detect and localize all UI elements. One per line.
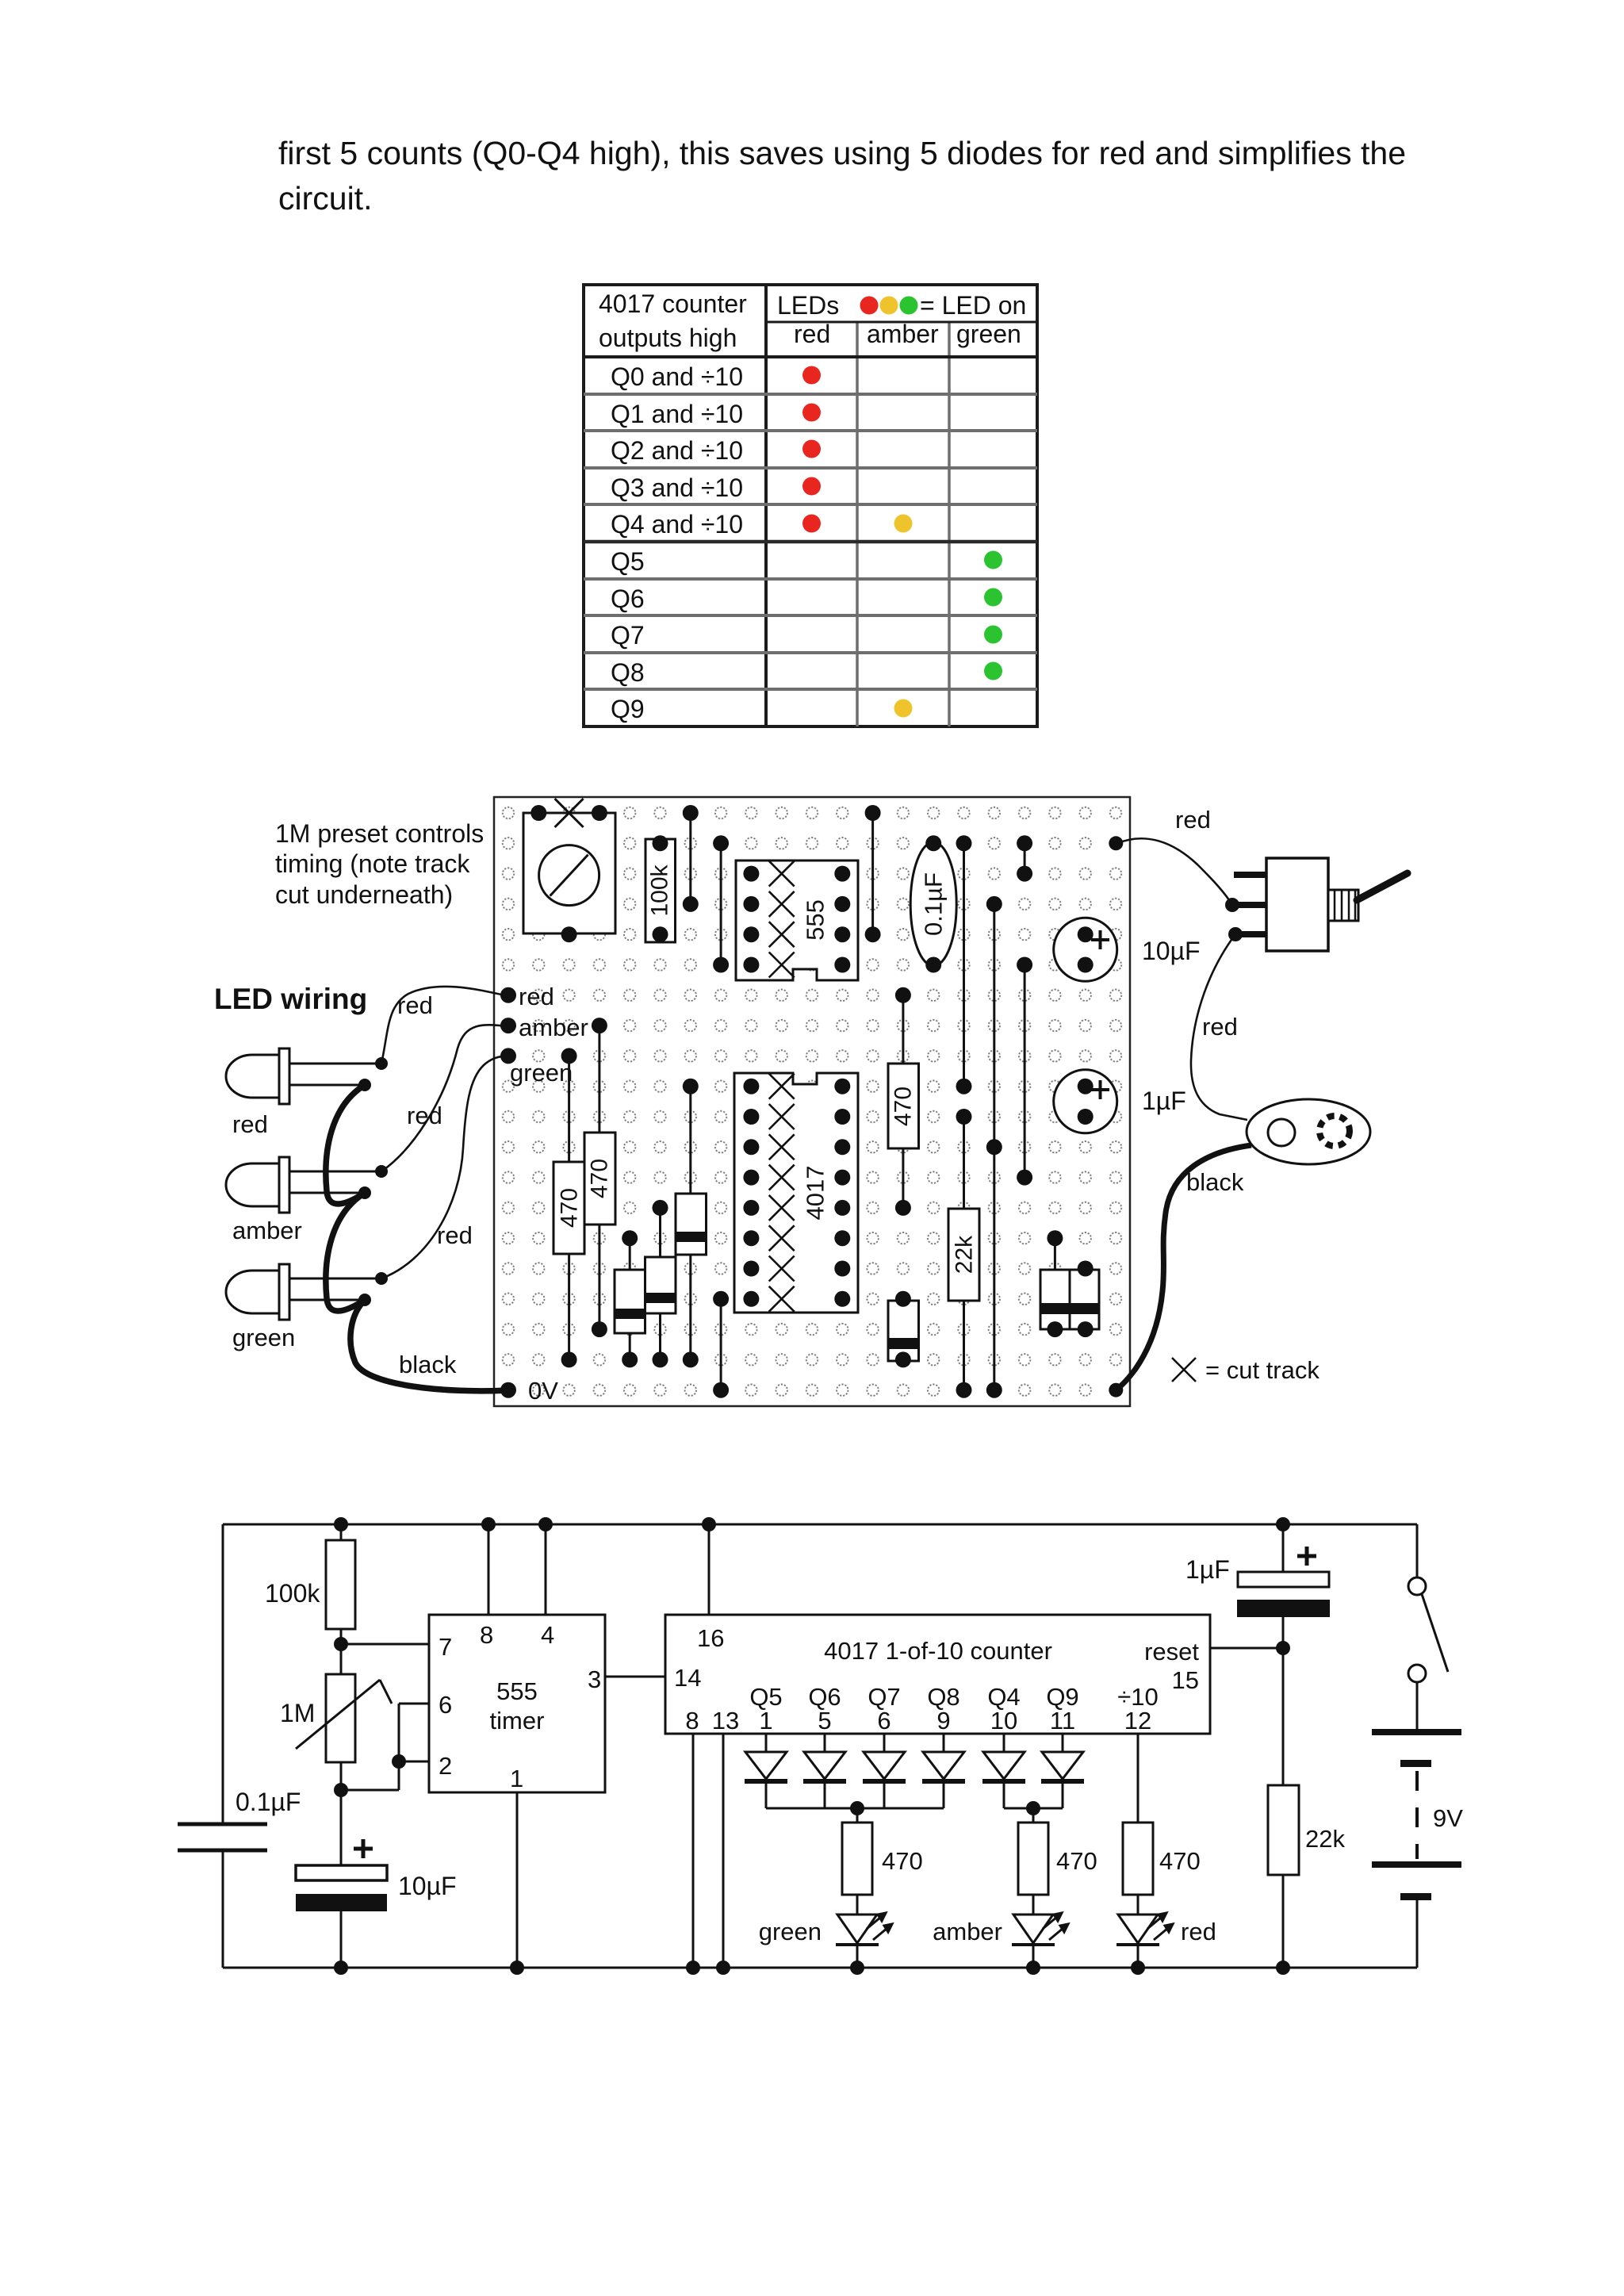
table legend LED dots — [860, 297, 918, 315]
svg-text:10µF: 10µF — [398, 1872, 457, 1900]
svg-text:Q6: Q6 — [611, 585, 645, 613]
diode (board, col6) — [676, 1079, 707, 1368]
svg-text:11: 11 — [1050, 1707, 1075, 1734]
svg-text:black: black — [399, 1351, 457, 1378]
svg-text:470: 470 — [1056, 1847, 1097, 1875]
svg-text:0.1µF: 0.1µF — [236, 1788, 301, 1816]
diode pair (board, cols18-19) — [1040, 1230, 1099, 1337]
diode D6 (Q9) — [1041, 1734, 1084, 1808]
svg-text:Q1 and ÷10: Q1 and ÷10 — [611, 400, 743, 428]
wire link col16 rows3-19 — [986, 896, 1002, 1398]
preset potentiometer 1M — [523, 805, 615, 942]
resistor 470 (board, col3) — [584, 1018, 615, 1337]
svg-text:2: 2 — [439, 1752, 452, 1780]
junction pin2/6 — [392, 1754, 406, 1769]
cathode link wire red-amber — [326, 1085, 365, 1204]
circuit schematic — [178, 1517, 1463, 1975]
IC 4017 (board) — [734, 1073, 858, 1313]
battery clip — [1247, 1099, 1370, 1164]
svg-text:red: red — [1181, 1918, 1216, 1945]
wire link col17 rows1-2 — [1017, 835, 1032, 881]
svg-text:15: 15 — [1172, 1666, 1199, 1694]
resistor 470 (board, col13) — [888, 987, 919, 1216]
board hole grid — [493, 798, 1130, 1405]
diode D4 (Q8) — [922, 1734, 965, 1808]
wire top supply rail — [223, 1524, 1417, 1526]
wire link col12 rows0-4 — [865, 805, 881, 942]
capacitor 0.1uF — [178, 1788, 301, 1850]
capacitor 1uF (board) — [1054, 1070, 1117, 1133]
svg-text:14: 14 — [674, 1664, 701, 1692]
svg-text:4: 4 — [541, 1621, 554, 1649]
LED red (schematic) — [1116, 1913, 1216, 1975]
node red (board entry) — [500, 983, 554, 1010]
resistor 470 (green) — [842, 1808, 923, 1915]
switch (schematic) — [1408, 1524, 1448, 1732]
LED wiring section — [214, 983, 508, 1391]
svg-text:9: 9 — [936, 1707, 950, 1734]
wire pin12 down — [1137, 1734, 1139, 1823]
resistor 470 (board, col2) — [553, 1048, 584, 1367]
paragraph text — [278, 135, 1406, 217]
svg-text:470: 470 — [1159, 1847, 1201, 1875]
svg-text:first 5 counts (Q0-Q4 high), t: first 5 counts (Q0-Q4 high), this saves … — [278, 135, 1406, 171]
stripboard layout diagram — [275, 797, 1201, 1406]
LED amber (schematic) — [933, 1913, 1068, 1975]
wire amber LED anode to board — [381, 1025, 508, 1171]
svg-text:470: 470 — [557, 1188, 583, 1228]
svg-text:0V: 0V — [528, 1377, 558, 1405]
right-side off-board wiring — [1109, 806, 1408, 1397]
svg-text:6: 6 — [439, 1691, 452, 1719]
svg-text:red: red — [1175, 806, 1211, 834]
svg-text:555: 555 — [802, 899, 829, 941]
wire switch to battery clip — [1191, 934, 1247, 1120]
wire pins 2 and 6 — [341, 1704, 429, 1790]
svg-text:0.1µF: 0.1µF — [920, 872, 948, 936]
node (20,1) red wire exit — [1109, 836, 1123, 850]
svg-text:Q3 and ÷10: Q3 and ÷10 — [611, 473, 743, 502]
svg-text:Q7: Q7 — [611, 621, 645, 650]
wire link col7 rows1-5 — [713, 835, 729, 972]
svg-text:8: 8 — [480, 1621, 493, 1649]
wire pin8 4017 — [692, 1734, 695, 1968]
diode D3 (Q7) — [863, 1734, 906, 1808]
diode (board, col5) — [645, 1200, 676, 1368]
resistor 22k (board) — [948, 1109, 979, 1398]
IC 4017 counter — [665, 1615, 1210, 1734]
svg-text:Q4 and ÷10: Q4 and ÷10 — [611, 510, 743, 539]
wire pin4 — [545, 1524, 547, 1615]
svg-text:1M preset controls: 1M preset controls — [275, 819, 484, 848]
wire black battery clip to board — [1116, 1145, 1251, 1390]
svg-text:3: 3 — [588, 1665, 601, 1693]
diode D2 (Q6) — [803, 1734, 846, 1808]
diode D5 (Q4) — [982, 1734, 1025, 1808]
svg-text:12: 12 — [1124, 1707, 1151, 1734]
svg-text:1: 1 — [759, 1707, 772, 1734]
board outline — [494, 797, 1130, 1406]
svg-text:circuit.: circuit. — [278, 180, 372, 217]
wire link col15 rows1-9 — [956, 835, 972, 1094]
toggle switch — [1225, 858, 1408, 951]
svg-text:green: green — [759, 1918, 822, 1945]
wire link col7 rows16-19 — [713, 1291, 729, 1398]
cathode link wire amber-green — [326, 1193, 365, 1311]
svg-text:amber: amber — [867, 320, 939, 348]
4017 output labels — [685, 1683, 1158, 1734]
svg-text:LEDs: LEDs — [777, 291, 839, 320]
svg-text:4017: 4017 — [802, 1166, 829, 1221]
resistor 470 (amber) — [1018, 1808, 1097, 1915]
svg-text:Q9: Q9 — [611, 695, 645, 723]
svg-text:9V: 9V — [1433, 1804, 1463, 1832]
wire pin1 — [516, 1792, 519, 1968]
note text: 1M preset controls timing — [275, 819, 484, 909]
svg-text:4017 counter: 4017 counter — [599, 289, 747, 318]
svg-text:6: 6 — [877, 1707, 891, 1734]
wire green LED anode to board — [381, 1056, 508, 1278]
preset 1M — [280, 1674, 392, 1865]
capacitor 10uF (board) — [1054, 918, 1117, 981]
svg-text:= LED on: = LED on — [920, 291, 1026, 320]
svg-text:amber: amber — [232, 1217, 302, 1244]
svg-text:Q0 and ÷10: Q0 and ÷10 — [611, 362, 743, 391]
wire left rail lower — [222, 1850, 224, 1968]
wire reset pin15 — [1210, 1647, 1283, 1650]
resistor 100k — [265, 1517, 355, 1674]
svg-text:timer: timer — [490, 1707, 545, 1734]
svg-text:470: 470 — [882, 1847, 923, 1875]
node green (board entry) — [500, 1048, 573, 1087]
wire board to switch — [1116, 838, 1232, 905]
table LED state dots — [802, 366, 1002, 718]
wire pin7 — [341, 1643, 429, 1646]
svg-text:Q2 and ÷10: Q2 and ÷10 — [611, 436, 743, 465]
table grid lines — [584, 285, 1037, 726]
svg-text:black: black — [1186, 1168, 1244, 1196]
diode D1 (Q5) — [745, 1734, 787, 1808]
table header text — [599, 289, 1026, 352]
svg-text:reset: reset — [1144, 1638, 1199, 1665]
svg-text:red: red — [794, 320, 830, 348]
wire link col6 rows0-3 — [683, 805, 699, 912]
wire red LED anode to board — [381, 987, 508, 1064]
cut-track X on preset top edge — [555, 799, 584, 827]
node amber (board entry) — [500, 1014, 588, 1041]
LED amber — [226, 1157, 388, 1244]
wire pin8 — [488, 1524, 490, 1615]
svg-text:555: 555 — [496, 1677, 538, 1705]
svg-text:10: 10 — [990, 1707, 1017, 1734]
svg-text:= cut track: = cut track — [1205, 1356, 1319, 1384]
svg-text:timing (note track: timing (note track — [275, 849, 470, 878]
IC 555 (board) — [736, 861, 858, 980]
svg-text:Q8: Q8 — [611, 658, 645, 687]
svg-text:22k: 22k — [952, 1235, 978, 1274]
resistor 22k — [1268, 1785, 1345, 1975]
svg-text:10µF: 10µF — [1142, 937, 1201, 965]
svg-text:green: green — [232, 1324, 295, 1351]
diode (board, col4) — [615, 1230, 645, 1367]
svg-text:1µF: 1µF — [1142, 1087, 1186, 1115]
svg-text:7: 7 — [439, 1633, 452, 1661]
LED green (schematic) — [759, 1913, 892, 1975]
svg-text:red: red — [407, 1102, 442, 1129]
battery 9V — [1372, 1732, 1463, 1968]
IC 555 timer — [429, 1615, 605, 1792]
svg-text:red: red — [1202, 1013, 1238, 1041]
wire pin16 — [708, 1524, 710, 1615]
wire bottom 0V rail — [223, 1967, 1417, 1969]
capacitor 0.1uF (board) — [910, 835, 956, 972]
svg-text:green: green — [956, 320, 1021, 348]
capacitor 10uF — [296, 1839, 457, 1975]
wire amber diode bus — [1004, 1807, 1063, 1810]
svg-text:amber: amber — [519, 1014, 588, 1041]
node 0V (board entry) — [500, 1377, 558, 1405]
svg-text:16: 16 — [697, 1624, 724, 1652]
table row labels — [611, 362, 743, 723]
resistor 470 (red) — [1123, 1808, 1201, 1915]
wire green diode bus — [766, 1807, 944, 1810]
svg-text:red: red — [519, 983, 554, 1010]
svg-text:100k: 100k — [265, 1579, 320, 1608]
wire pin13 4017 — [722, 1734, 725, 1968]
wire black to 0V — [350, 1300, 508, 1391]
wire pin3 to pin14 — [605, 1676, 665, 1678]
svg-text:cut underneath): cut underneath) — [275, 880, 453, 909]
LED green — [226, 1264, 388, 1351]
svg-text:LED wiring: LED wiring — [214, 983, 367, 1015]
svg-text:470: 470 — [891, 1087, 917, 1126]
svg-text:4017 1-of-10 counter: 4017 1-of-10 counter — [824, 1637, 1052, 1665]
wire link col17 rows5-12 — [1017, 957, 1032, 1186]
diode (board, col13) — [888, 1291, 919, 1368]
svg-text:1: 1 — [510, 1765, 523, 1792]
legend cut track — [1172, 1356, 1319, 1384]
svg-text:red: red — [397, 991, 433, 1019]
svg-text:100k: 100k — [647, 864, 673, 916]
capacitor 1uF — [1185, 1517, 1330, 1785]
svg-text:outputs high: outputs high — [599, 324, 737, 352]
svg-text:5: 5 — [818, 1707, 831, 1734]
svg-text:red: red — [232, 1110, 268, 1138]
svg-text:green: green — [510, 1059, 573, 1087]
svg-text:1M: 1M — [280, 1699, 315, 1727]
svg-text:8: 8 — [685, 1707, 699, 1734]
svg-text:1µF: 1µF — [1185, 1555, 1230, 1584]
LED state table — [584, 285, 1037, 726]
svg-text:Q5: Q5 — [611, 547, 645, 576]
LED red — [226, 1048, 388, 1138]
node (20,19) black wire entry — [1109, 1383, 1123, 1397]
svg-text:22k: 22k — [1305, 1825, 1345, 1853]
resistor 100k (board) — [645, 835, 676, 942]
svg-text:amber: amber — [933, 1918, 1002, 1945]
svg-text:13: 13 — [712, 1707, 739, 1734]
svg-text:red: red — [437, 1221, 473, 1249]
wire left rail upper — [222, 1524, 224, 1824]
svg-text:470: 470 — [587, 1159, 613, 1198]
